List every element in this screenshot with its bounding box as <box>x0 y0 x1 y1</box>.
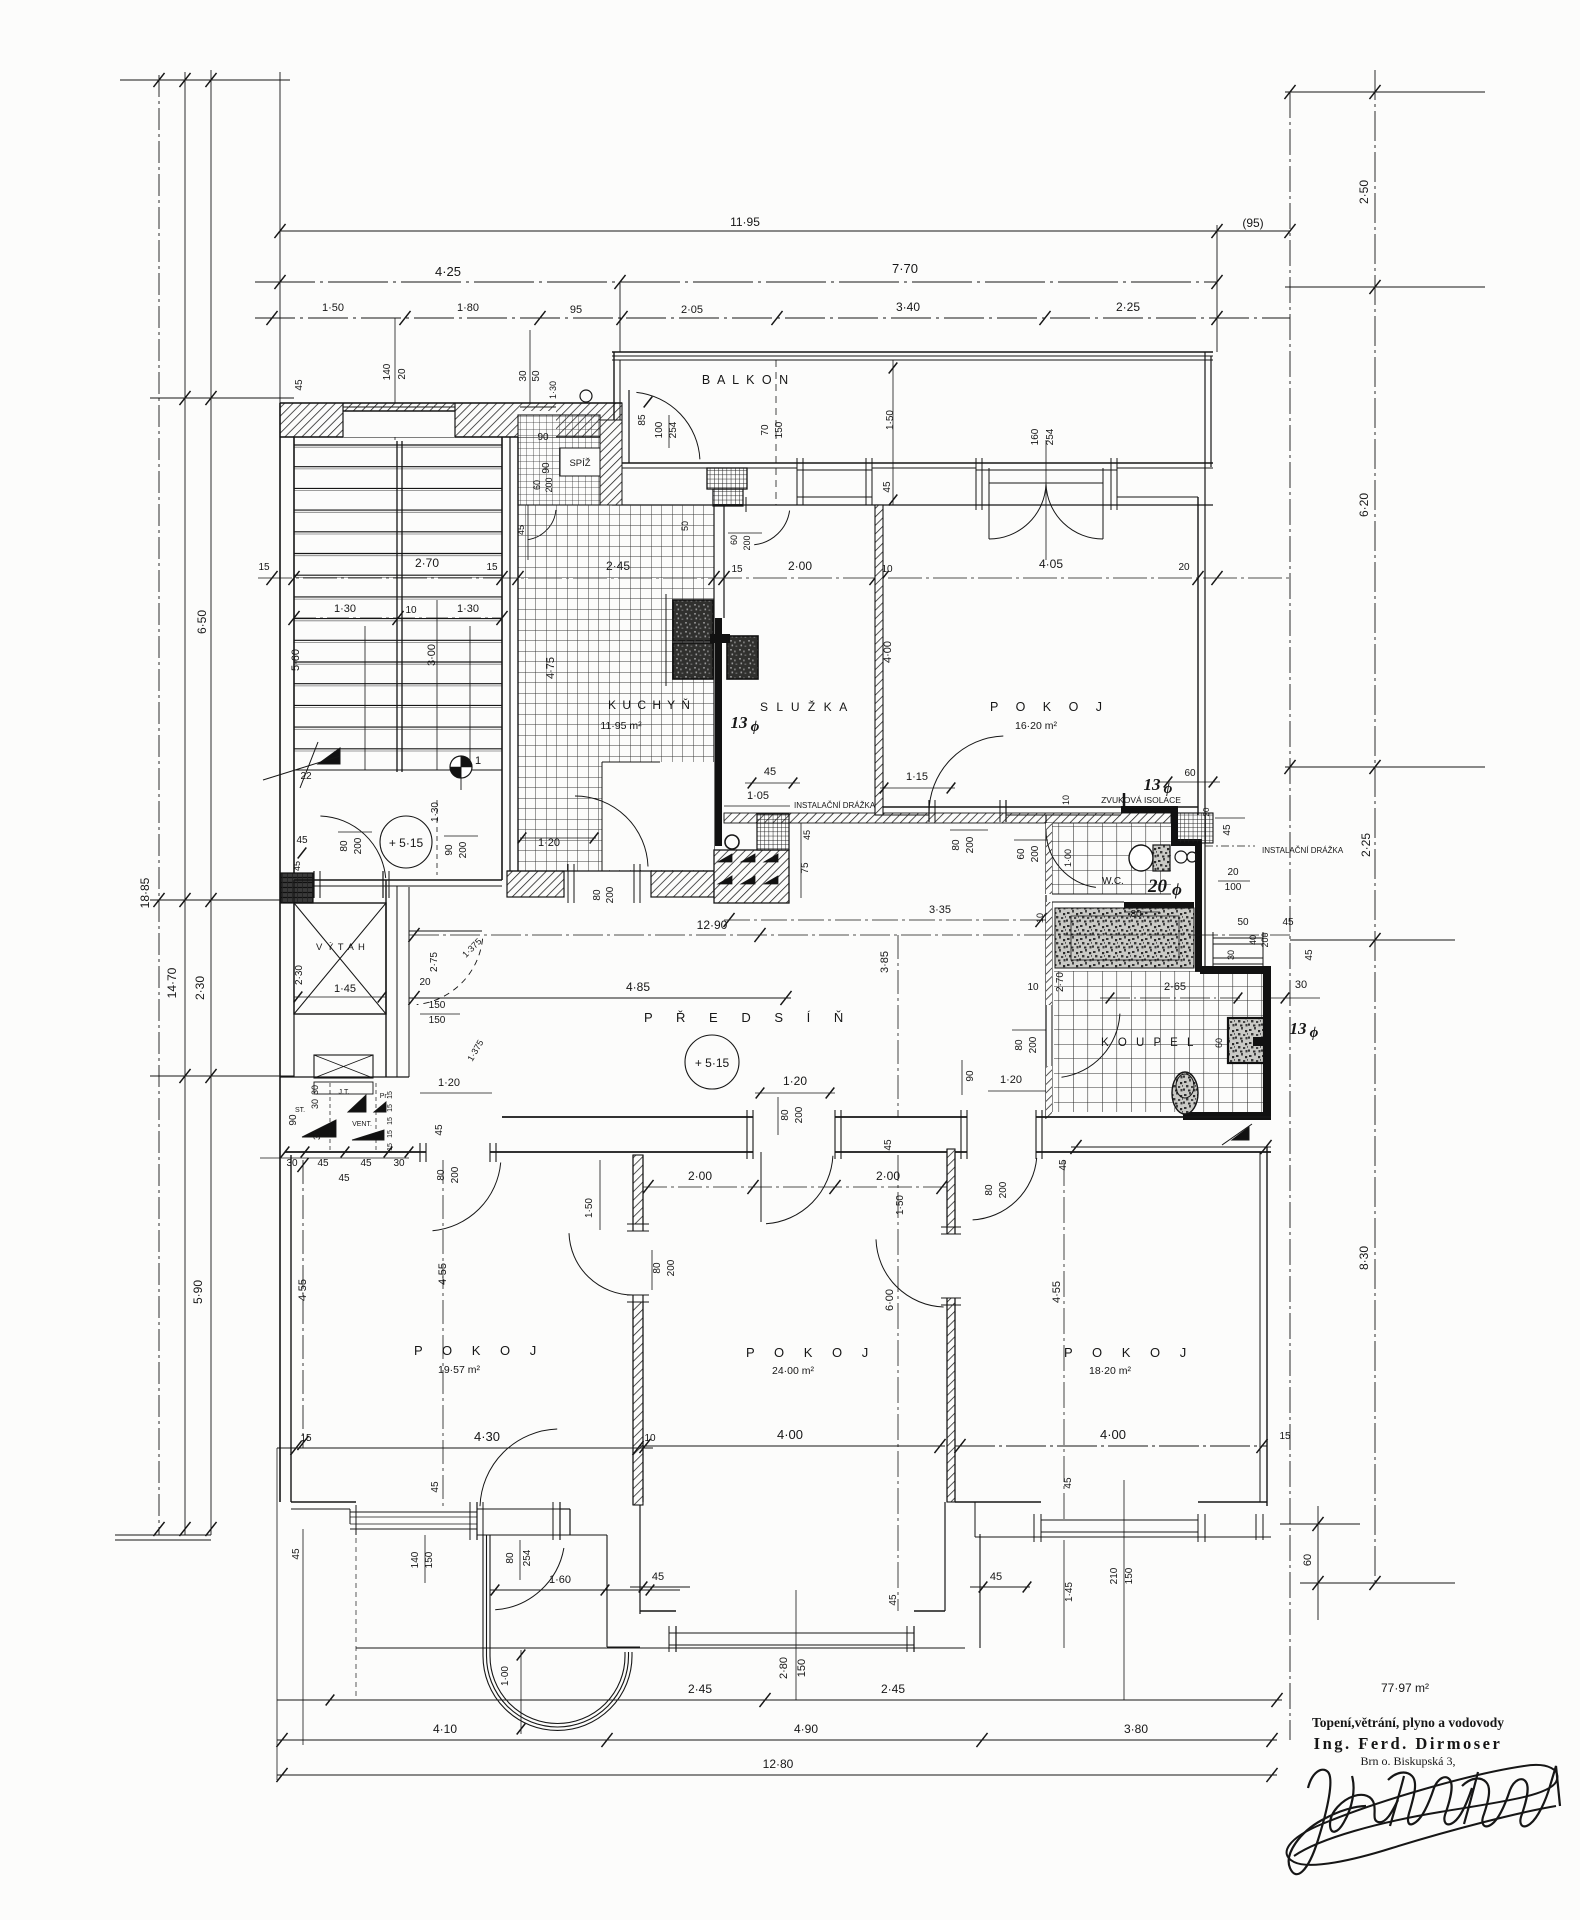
svg-text:Ing. Ferd. Dirmoser: Ing. Ferd. Dirmoser <box>1314 1734 1503 1753</box>
svg-text:30: 30 <box>310 1099 320 1109</box>
svg-text:160: 160 <box>1030 428 1041 445</box>
svg-text:30: 30 <box>1295 979 1307 991</box>
svg-text:2·45: 2·45 <box>881 1682 905 1696</box>
svg-text:16·20 m²: 16·20 m² <box>1015 720 1058 732</box>
svg-text:200: 200 <box>1030 845 1041 862</box>
svg-text:13: 13 <box>731 713 749 732</box>
svg-text:60: 60 <box>1214 1038 1224 1048</box>
svg-text:20: 20 <box>419 977 431 988</box>
svg-text:1·20: 1·20 <box>783 1074 807 1088</box>
svg-text:50: 50 <box>531 370 542 382</box>
svg-text:150: 150 <box>1124 1567 1135 1584</box>
svg-text:15: 15 <box>387 1091 394 1099</box>
svg-text:4·90: 4·90 <box>794 1722 818 1736</box>
svg-text:1: 1 <box>475 755 481 767</box>
svg-text:50: 50 <box>1237 917 1249 928</box>
svg-text:2·70: 2·70 <box>1055 972 1066 992</box>
svg-text:254: 254 <box>668 421 679 438</box>
svg-text:30: 30 <box>518 370 529 382</box>
svg-text:11·95 m²: 11·95 m² <box>600 720 642 732</box>
svg-text:8·30: 8·30 <box>1357 1246 1371 1270</box>
svg-text:254: 254 <box>1045 428 1056 445</box>
svg-text:45: 45 <box>1222 824 1233 836</box>
svg-text:P O K O J: P O K O J <box>1064 1345 1194 1360</box>
svg-text:80: 80 <box>1014 1039 1025 1051</box>
svg-text:1·80: 1·80 <box>457 302 479 314</box>
svg-text:5·60: 5·60 <box>290 649 302 671</box>
svg-text:2·45: 2·45 <box>688 1682 712 1696</box>
svg-text:2·00: 2·00 <box>688 1169 712 1183</box>
svg-text:11·95: 11·95 <box>730 215 760 229</box>
svg-text:45: 45 <box>1058 1159 1069 1171</box>
svg-text:4·25: 4·25 <box>435 264 461 279</box>
svg-text:5·90: 5·90 <box>191 1280 205 1304</box>
svg-text:80: 80 <box>592 889 603 901</box>
svg-text:15: 15 <box>387 1117 394 1125</box>
svg-text:1·50: 1·50 <box>584 1198 595 1218</box>
svg-text:200: 200 <box>458 841 469 858</box>
svg-text:2·65: 2·65 <box>1164 981 1186 993</box>
svg-text:45: 45 <box>292 861 302 871</box>
svg-text:15: 15 <box>387 1143 394 1151</box>
svg-text:2·75: 2·75 <box>429 952 440 972</box>
svg-text:J.T.: J.T. <box>339 1089 350 1096</box>
svg-text:150: 150 <box>429 1015 446 1026</box>
svg-text:15: 15 <box>1279 1431 1291 1442</box>
svg-text:2·00: 2·00 <box>788 559 812 573</box>
svg-text:10: 10 <box>644 1433 656 1444</box>
svg-text:1·45: 1·45 <box>1064 1582 1075 1602</box>
svg-text:30: 30 <box>312 1130 322 1140</box>
svg-text:13: 13 <box>1144 775 1162 794</box>
svg-text:150: 150 <box>774 421 785 438</box>
svg-text:P Ř E D S Í Ň: P Ř E D S Í Ň <box>644 1010 853 1025</box>
svg-text:10: 10 <box>1027 982 1039 993</box>
svg-text:+ 5·15: + 5·15 <box>695 1056 730 1070</box>
svg-text:150: 150 <box>796 1659 808 1677</box>
svg-text:20: 20 <box>1147 876 1168 897</box>
svg-text:60: 60 <box>729 535 739 545</box>
svg-text:K O U P E L: K O U P E L <box>1101 1037 1196 1049</box>
svg-text:30: 30 <box>1226 950 1236 960</box>
svg-text:200: 200 <box>794 1106 805 1123</box>
svg-text:45: 45 <box>360 1158 372 1169</box>
svg-text:45: 45 <box>338 1173 350 1184</box>
svg-text:20: 20 <box>1227 867 1239 878</box>
svg-text:V Ý T A H: V Ý T A H <box>316 942 366 953</box>
svg-text:30: 30 <box>310 1085 320 1095</box>
svg-text:4·05: 4·05 <box>1039 557 1063 571</box>
svg-text:200: 200 <box>666 1259 677 1276</box>
svg-text:1·30: 1·30 <box>548 381 558 399</box>
svg-text:1·20: 1·20 <box>538 837 560 849</box>
svg-text:200: 200 <box>998 1181 1009 1198</box>
svg-text:30: 30 <box>286 1158 298 1169</box>
svg-text:200: 200 <box>450 1166 461 1183</box>
svg-text:1·45: 1·45 <box>334 983 356 995</box>
svg-text:1·20: 1·20 <box>438 1077 460 1089</box>
svg-text:90: 90 <box>444 844 455 856</box>
svg-text:140: 140 <box>410 1551 421 1568</box>
svg-text:2·25: 2·25 <box>1116 300 1140 314</box>
svg-text:20: 20 <box>397 368 408 380</box>
svg-text:W.C.: W.C. <box>1102 876 1124 887</box>
svg-text:80: 80 <box>652 1262 663 1274</box>
svg-text:20: 20 <box>1178 562 1190 573</box>
svg-text:45: 45 <box>430 1481 441 1493</box>
svg-text:60: 60 <box>1184 768 1196 779</box>
svg-text:45: 45 <box>294 379 305 391</box>
svg-text:45: 45 <box>1063 1477 1074 1489</box>
svg-text:2·30: 2·30 <box>294 965 305 985</box>
svg-text:4·85: 4·85 <box>626 980 650 994</box>
svg-text:60: 60 <box>1016 848 1027 860</box>
svg-text:75: 75 <box>800 862 811 874</box>
svg-text:P O K O J: P O K O J <box>414 1343 544 1358</box>
svg-text:90: 90 <box>288 1114 299 1126</box>
svg-text:254: 254 <box>522 1549 533 1566</box>
svg-text:90: 90 <box>965 1070 976 1082</box>
svg-text:15: 15 <box>731 564 743 575</box>
svg-text:10: 10 <box>405 605 417 616</box>
svg-text:45: 45 <box>291 1548 302 1560</box>
svg-text:45: 45 <box>1282 917 1294 928</box>
svg-text:1·30: 1·30 <box>430 802 441 822</box>
svg-text:1·50: 1·50 <box>885 410 896 430</box>
svg-text:4·00: 4·00 <box>882 641 894 663</box>
svg-text:45: 45 <box>802 830 812 840</box>
svg-text:18·20 m²: 18·20 m² <box>1089 1365 1132 1377</box>
svg-text:6·20: 6·20 <box>1357 493 1371 517</box>
svg-text:ϕ: ϕ <box>1310 1025 1319 1041</box>
svg-text:4·30: 4·30 <box>474 1429 500 1444</box>
svg-text:100: 100 <box>654 421 665 438</box>
svg-text:K U C H Y Ň: K U C H Y Ň <box>608 697 691 712</box>
svg-text:80: 80 <box>951 839 962 851</box>
svg-text:90: 90 <box>537 432 549 443</box>
svg-text:200: 200 <box>965 836 976 853</box>
svg-text:4·75: 4·75 <box>545 657 557 679</box>
svg-text:200: 200 <box>1028 1036 1039 1053</box>
svg-text:ST.: ST. <box>295 1107 305 1114</box>
svg-text:70: 70 <box>760 424 771 436</box>
svg-text:80: 80 <box>1130 909 1142 920</box>
svg-text:80: 80 <box>436 1169 447 1181</box>
svg-text:2·05: 2·05 <box>681 304 703 316</box>
svg-text:1·05: 1·05 <box>747 790 769 802</box>
svg-text:80: 80 <box>339 840 350 852</box>
svg-text:3·85: 3·85 <box>879 951 891 973</box>
svg-text:1·00: 1·00 <box>500 1666 511 1686</box>
svg-text:10: 10 <box>1061 795 1071 805</box>
svg-text:45: 45 <box>652 1571 664 1583</box>
svg-text:150: 150 <box>424 1551 435 1568</box>
svg-text:P O K O J: P O K O J <box>990 700 1109 714</box>
svg-text:45: 45 <box>1304 949 1315 961</box>
svg-text:14·70: 14·70 <box>165 967 179 998</box>
svg-text:77·97 m²: 77·97 m² <box>1381 1681 1429 1695</box>
svg-text:2·70: 2·70 <box>415 556 439 570</box>
svg-text:10: 10 <box>1035 913 1045 923</box>
svg-text:100: 100 <box>1225 882 1242 893</box>
svg-text:200: 200 <box>353 837 364 854</box>
svg-text:40: 40 <box>1248 935 1258 945</box>
svg-text:INSTALAČNÍ DRÁŽKA: INSTALAČNÍ DRÁŽKA <box>1262 846 1344 855</box>
svg-text:B A L K O N: B A L K O N <box>702 373 790 387</box>
svg-text:80: 80 <box>984 1184 995 1196</box>
svg-text:3·00: 3·00 <box>426 644 438 666</box>
svg-text:1·50: 1·50 <box>322 302 344 314</box>
svg-text:Brn o. Biskupská 3,: Brn o. Biskupská 3, <box>1360 1754 1455 1768</box>
svg-text:19·57 m²: 19·57 m² <box>438 1364 481 1376</box>
svg-text:80: 80 <box>505 1552 516 1564</box>
svg-text:12·90: 12·90 <box>697 918 728 932</box>
svg-text:18·85: 18·85 <box>138 877 152 908</box>
svg-text:200: 200 <box>544 477 554 492</box>
svg-text:13: 13 <box>1290 1019 1308 1038</box>
svg-text:90: 90 <box>541 462 552 474</box>
svg-text:1·30: 1·30 <box>334 603 356 615</box>
svg-text:45: 45 <box>883 1139 894 1151</box>
svg-text:45: 45 <box>764 766 776 778</box>
svg-text:1·60: 1·60 <box>549 1574 571 1586</box>
svg-text:95: 95 <box>570 304 582 316</box>
svg-text:1·20: 1·20 <box>1000 1074 1022 1086</box>
svg-text:3·35: 3·35 <box>929 904 951 916</box>
svg-text:200: 200 <box>742 535 752 550</box>
svg-text:60: 60 <box>532 480 542 490</box>
svg-text:80: 80 <box>780 1109 791 1121</box>
svg-text:60: 60 <box>1302 1554 1314 1566</box>
svg-text:45: 45 <box>434 1124 445 1136</box>
svg-text:6·50: 6·50 <box>195 610 209 634</box>
svg-text:45: 45 <box>888 1594 899 1606</box>
svg-text:45: 45 <box>317 1158 329 1169</box>
svg-text:ZVUKOVÁ ISOLACE: ZVUKOVÁ ISOLACE <box>1101 795 1181 805</box>
svg-text:S L U Ž K A: S L U Ž K A <box>760 699 850 714</box>
svg-text:P O K O J: P O K O J <box>746 1345 876 1360</box>
svg-text:6·00: 6·00 <box>884 1289 896 1311</box>
svg-text:4·00: 4·00 <box>1100 1427 1126 1442</box>
svg-text:3·80: 3·80 <box>1124 1722 1148 1736</box>
svg-text:2·30: 2·30 <box>193 976 207 1000</box>
svg-text:(95): (95) <box>1242 216 1263 230</box>
svg-text:4·00: 4·00 <box>777 1427 803 1442</box>
svg-text:1·15: 1·15 <box>906 771 928 783</box>
svg-text:2·25: 2·25 <box>1359 833 1373 857</box>
svg-text:SPÍŽ: SPÍŽ <box>569 458 590 469</box>
svg-text:85: 85 <box>637 414 648 426</box>
svg-text:12·80: 12·80 <box>763 1757 794 1771</box>
svg-text:15: 15 <box>387 1130 394 1138</box>
svg-text:1·50: 1·50 <box>895 1195 906 1215</box>
svg-text:4·55: 4·55 <box>1051 1281 1063 1303</box>
svg-text:2·00: 2·00 <box>876 1169 900 1183</box>
svg-text:Topení,větrání, plyno a vodovo: Topení,větrání, plyno a vodovody <box>1312 1715 1504 1730</box>
svg-text:15: 15 <box>300 1433 312 1444</box>
svg-text:20: 20 <box>1202 807 1211 816</box>
svg-text:22: 22 <box>300 771 312 782</box>
svg-text:4·10: 4·10 <box>433 1722 457 1736</box>
svg-text:15: 15 <box>258 562 270 573</box>
svg-text:1·30: 1·30 <box>457 603 479 615</box>
svg-text:15: 15 <box>387 1104 394 1112</box>
svg-text:2·80: 2·80 <box>778 1657 790 1679</box>
svg-text:ϕ: ϕ <box>751 719 760 735</box>
svg-text:24·00 m²: 24·00 m² <box>772 1365 815 1377</box>
svg-text:45: 45 <box>296 835 308 846</box>
svg-text:30: 30 <box>393 1158 405 1169</box>
svg-text:2·50: 2·50 <box>1357 180 1371 204</box>
svg-text:15: 15 <box>486 562 498 573</box>
svg-text:3·40: 3·40 <box>896 300 920 314</box>
svg-text:7·70: 7·70 <box>892 261 918 276</box>
svg-text:INSTALAČNÍ DRÁŽKA: INSTALAČNÍ DRÁŽKA <box>794 801 876 810</box>
svg-text:VENT.: VENT. <box>352 1121 372 1128</box>
svg-text:ϕ: ϕ <box>1172 880 1182 899</box>
svg-text:150: 150 <box>429 1000 446 1011</box>
svg-text:200: 200 <box>605 886 616 903</box>
svg-text:140: 140 <box>382 363 393 380</box>
svg-text:+ 5·15: + 5·15 <box>389 836 424 850</box>
svg-text:45: 45 <box>990 1571 1002 1583</box>
svg-text:1·00: 1·00 <box>1063 849 1073 867</box>
svg-text:210: 210 <box>1109 1567 1120 1584</box>
svg-text:45: 45 <box>882 481 893 493</box>
